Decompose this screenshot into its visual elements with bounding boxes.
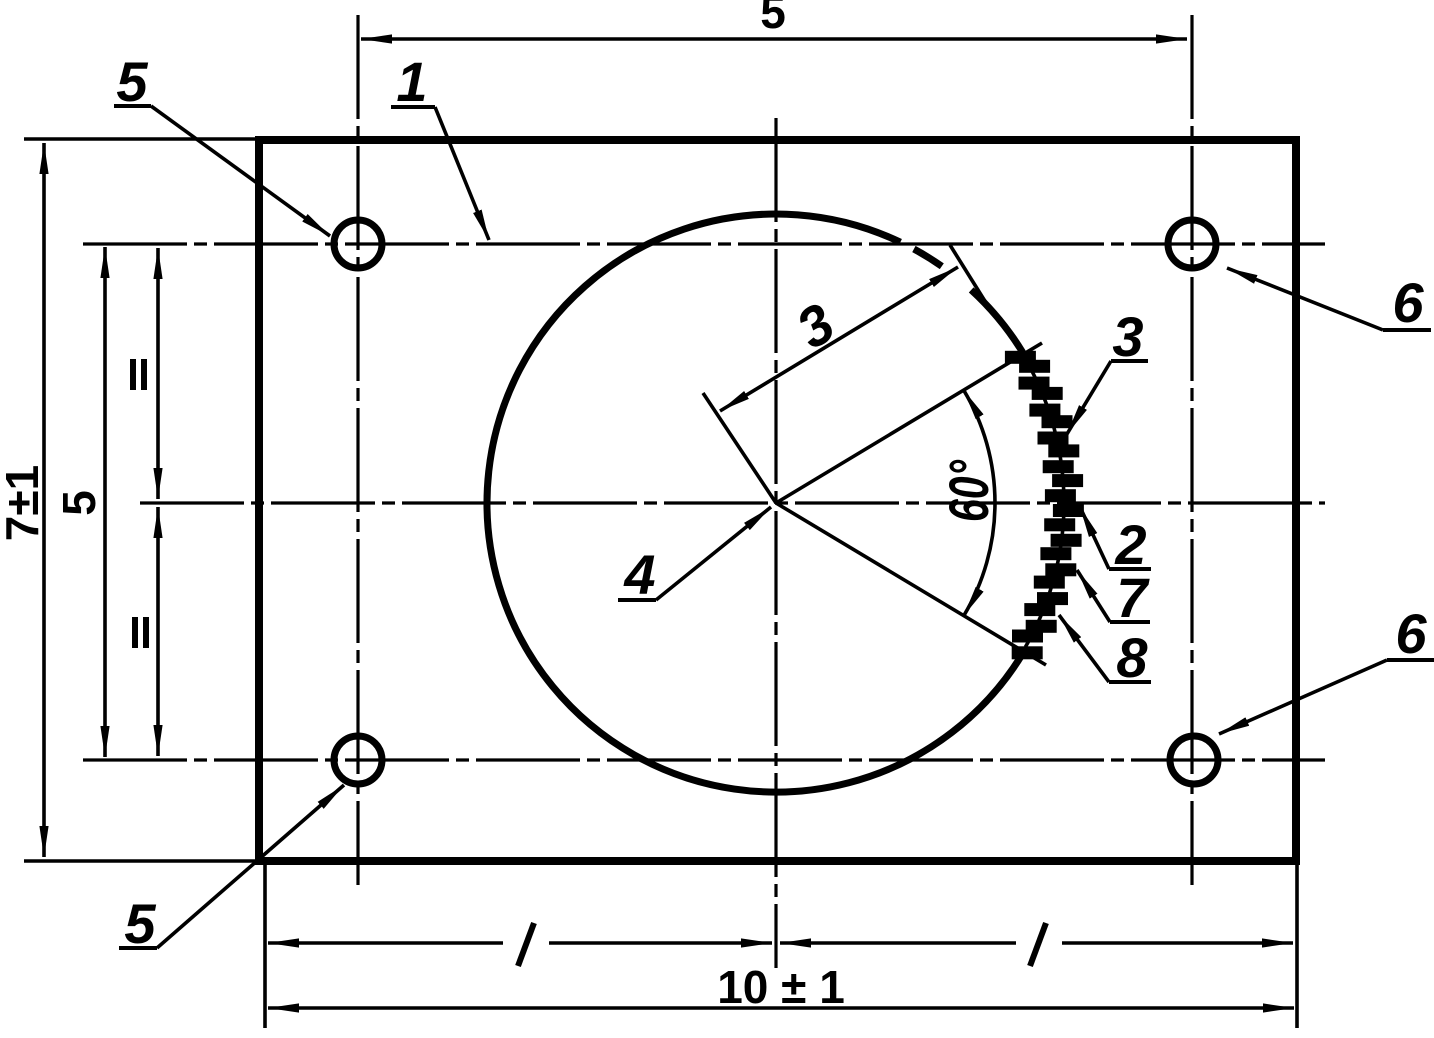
label II upper (two bars) bbox=[130, 359, 147, 390]
dimension 5 top bbox=[361, 37, 1187, 41]
svg-text:3: 3 bbox=[785, 291, 844, 361]
dimension 7+-1 bbox=[42, 143, 46, 857]
label II lower (two bars) bbox=[132, 617, 149, 648]
dimension II upper bbox=[156, 248, 160, 499]
extension plate left lower bbox=[263, 865, 267, 1028]
extension line top left bbox=[24, 137, 257, 141]
hole top-left bbox=[334, 220, 382, 268]
extension line bottom left bbox=[24, 859, 257, 863]
label l right (slanted bar) bbox=[1030, 923, 1046, 966]
centerline vertical right bbox=[1190, 15, 1193, 885]
plate outline bbox=[259, 140, 1296, 861]
svg-text:5: 5 bbox=[53, 490, 105, 516]
dimension l left bbox=[268, 941, 772, 945]
svg-text:7±1: 7±1 bbox=[0, 465, 48, 541]
label l left (slanted bar) bbox=[518, 923, 534, 966]
radial leg lower 60deg bbox=[776, 503, 1046, 665]
big hole circle main arc bbox=[487, 214, 1023, 792]
dimension 5 left bbox=[103, 247, 107, 757]
dimension 10+-1 bbox=[268, 1006, 1294, 1010]
centerline horizontal middle bbox=[140, 501, 1325, 504]
centerline horizontal bottom bbox=[83, 758, 1325, 761]
svg-text:3: 3 bbox=[1112, 305, 1143, 368]
svg-text:6: 6 bbox=[1392, 271, 1424, 334]
dimension l right bbox=[780, 941, 1293, 945]
svg-text:4: 4 bbox=[623, 543, 655, 606]
centerline horizontal top bbox=[83, 242, 1325, 245]
zipper teeth band bbox=[1005, 351, 1084, 660]
dimension line 3 (radius) bbox=[720, 267, 958, 411]
hole bottom-left bbox=[334, 736, 382, 784]
hole bottom-right bbox=[1170, 736, 1218, 784]
centerline vertical left bbox=[356, 15, 359, 885]
dimension II lower bbox=[156, 507, 160, 756]
radial leg upper 60deg bbox=[776, 343, 1042, 503]
svg-text:5: 5 bbox=[760, 0, 786, 38]
centerline vertical middle bbox=[774, 118, 777, 968]
hole top-right bbox=[1168, 220, 1216, 268]
svg-text:5: 5 bbox=[116, 50, 148, 113]
extension line at circle edge bbox=[950, 245, 988, 306]
svg-text:7: 7 bbox=[1116, 566, 1150, 629]
svg-text:10 ± 1: 10 ± 1 bbox=[717, 961, 845, 1013]
teeth backbone arc bbox=[1025, 359, 1064, 647]
big circle dashed segment bbox=[914, 249, 942, 266]
big circle short arc above teeth bbox=[971, 290, 1023, 353]
svg-text:1: 1 bbox=[396, 50, 427, 113]
svg-text:8: 8 bbox=[1116, 626, 1148, 689]
svg-text:60°: 60° bbox=[937, 460, 1000, 522]
svg-text:5: 5 bbox=[124, 892, 156, 955]
radial extension line for dim 3 bbox=[703, 393, 776, 503]
extension plate right lower bbox=[1295, 865, 1299, 1028]
60 degree dimension arc bbox=[964, 390, 995, 616]
svg-text:6: 6 bbox=[1395, 602, 1427, 665]
